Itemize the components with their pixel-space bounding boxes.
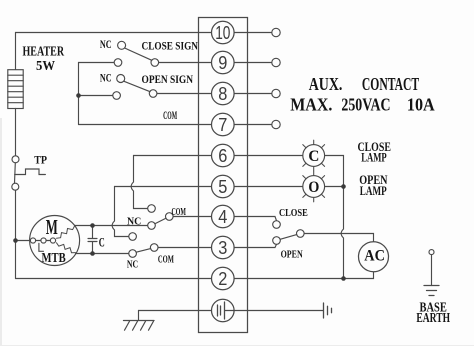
svg-text:O: O	[308, 179, 319, 196]
wire earth terminal row	[139, 310, 324, 312]
terminal block	[199, 18, 248, 333]
label AUX. CONTACT	[309, 74, 419, 94]
wire bus to aux switch 1	[79, 62, 115, 64]
svg-text:5: 5	[218, 177, 227, 197]
wire terminal 9 row	[159, 62, 272, 64]
aux contact bus (terminal 7 COM riser)	[78, 63, 80, 125]
earth symbol (earth row right)	[324, 303, 332, 318]
svg-text:COM: COM	[172, 206, 187, 218]
wire motor top to upper switch pivot	[75, 225, 148, 227]
label COM LS2	[158, 255, 174, 266]
wire lamp bus (C/O lamps to terminal 2 wire, hops AC feed)	[325, 156, 344, 279]
motor M / MTB	[30, 216, 80, 266]
svg-text:9: 9	[218, 53, 227, 73]
wire left bus bottom (TP to terminal 2 wire)	[15, 190, 17, 278]
wire terminal 7 COM row	[79, 124, 272, 126]
heater 5W	[8, 70, 23, 109]
svg-text:HEATER: HEATER	[23, 45, 65, 60]
label OPEN LAMP	[359, 172, 388, 198]
scan artifact left edge	[0, 118, 2, 346]
svg-text:CLOSE SIGN: CLOSE SIGN	[142, 39, 199, 53]
svg-text:LAMP: LAMP	[360, 183, 387, 198]
scan artifact bottom edge	[0, 345, 474, 346]
aux switch S2 OPEN SIGN	[113, 75, 157, 100]
wire terminal 8 row	[157, 93, 272, 95]
junction lamp bus to terminal 2 wire	[341, 276, 346, 281]
wire terminal 10 row	[16, 32, 272, 34]
svg-text:C: C	[308, 148, 319, 165]
junction capacitor top	[90, 223, 95, 228]
svg-text:2: 2	[218, 269, 227, 289]
label O lamp letter	[308, 179, 319, 196]
terminal earth	[212, 299, 235, 322]
aux contact stub terminal 10	[272, 28, 280, 36]
svg-text:COM: COM	[158, 255, 174, 266]
label HEATER	[23, 45, 65, 60]
svg-text:6: 6	[218, 146, 227, 166]
AC source	[359, 242, 389, 272]
close lamp C	[303, 140, 325, 171]
wire terminal 5 drop to lower limit switch NC (hops motor-top wire)	[112, 187, 129, 237]
label C capacitor	[99, 234, 105, 249]
label COM aux	[163, 108, 177, 122]
terminal 5	[212, 175, 235, 198]
wire terminal 2 row	[16, 272, 374, 279]
terminal 6	[212, 144, 235, 167]
svg-text:OPEN SIGN: OPEN SIGN	[142, 72, 194, 86]
label OPEN selector	[281, 249, 303, 261]
label CLOSE selector	[279, 207, 308, 219]
svg-text:10: 10	[215, 23, 230, 43]
svg-text:NC: NC	[100, 70, 112, 84]
svg-text:250VAC: 250VAC	[341, 95, 390, 115]
svg-text:AC: AC	[364, 248, 385, 265]
svg-text:4: 4	[218, 207, 227, 227]
label CLOSE SIGN	[142, 39, 199, 53]
wire bus to aux switch 2	[79, 95, 113, 97]
svg-text:MTB: MTB	[42, 251, 66, 266]
terminal 4	[212, 205, 235, 228]
label M motor	[46, 215, 58, 239]
wire terminal 6 drop to upper limit switch NC (hops t5 wire)	[131, 156, 148, 209]
svg-text:LAMP: LAMP	[361, 150, 387, 165]
wire left bus top (terminal 10 to heater)	[15, 33, 17, 70]
label MAX. 250VAC 10A	[290, 95, 434, 115]
svg-text:NC: NC	[100, 37, 112, 51]
chassis ground (earth row left)	[124, 311, 155, 331]
terminal 9	[212, 51, 235, 74]
wire terminal 5 row	[115, 186, 303, 188]
capacitor C	[88, 226, 97, 254]
label C lamp letter	[308, 148, 319, 165]
junction capacitor bottom	[90, 251, 95, 256]
svg-text:5W: 5W	[36, 59, 55, 74]
svg-text:TP: TP	[34, 152, 47, 166]
aux switch S1 CLOSE SIGN	[114, 41, 158, 66]
label OPEN SIGN	[142, 72, 194, 86]
label MTB	[42, 251, 66, 266]
label 5W	[36, 59, 55, 74]
wire selector to AC source	[304, 234, 373, 242]
svg-text:MAX.: MAX.	[290, 95, 332, 115]
label NC aux1	[100, 37, 112, 51]
label BASE EARTH	[416, 301, 450, 326]
terminal numbers	[215, 23, 230, 289]
svg-text:C: C	[99, 234, 105, 249]
svg-text:8: 8	[218, 84, 227, 104]
svg-text:M: M	[46, 215, 58, 239]
wire left bus to motor	[16, 240, 31, 242]
label TP	[34, 152, 47, 166]
limit switch LS2 (lower, to terminal 3)	[129, 233, 158, 258]
base earth electrode	[424, 250, 439, 296]
wire motor bottom to lower switch pivot	[76, 253, 129, 255]
svg-text:EARTH: EARTH	[416, 311, 450, 326]
svg-text:7: 7	[218, 115, 227, 135]
junction motor-bus	[13, 238, 18, 243]
label NC aux2	[100, 70, 112, 84]
label CLOSE LAMP	[358, 139, 391, 165]
wire terminal 4 row	[173, 217, 276, 221]
wire terminal 6 row	[134, 155, 303, 157]
terminal 2	[212, 267, 235, 290]
aux contact stub terminal 8	[272, 89, 280, 97]
selector switch CLOSE/OPEN	[273, 221, 304, 245]
label COM LS1	[172, 206, 187, 218]
thermal protector TP	[12, 156, 46, 190]
terminal 8	[212, 82, 235, 105]
aux contact stub terminal 9	[272, 58, 280, 66]
svg-text:OPEN: OPEN	[281, 249, 303, 261]
wire heater to TP	[15, 109, 17, 156]
label NC LS2	[127, 259, 138, 270]
label NC LS1	[127, 215, 141, 227]
terminal 10	[212, 21, 235, 44]
svg-text:COM: COM	[163, 108, 177, 122]
limit switch LS1 (upper, to terminal 4)	[148, 205, 173, 230]
open lamp O	[303, 171, 325, 202]
label AC	[364, 248, 385, 265]
svg-text:CLOSE: CLOSE	[279, 207, 308, 219]
junction O lamp bus	[341, 184, 346, 189]
terminal 3	[212, 236, 235, 259]
svg-text:NC: NC	[127, 215, 141, 227]
svg-text:3: 3	[218, 238, 227, 258]
svg-text:10A: 10A	[407, 95, 435, 115]
terminal 7	[212, 113, 235, 136]
svg-text:CONTACT: CONTACT	[362, 74, 419, 94]
aux contact stub terminal 7	[272, 120, 280, 128]
svg-text:NC: NC	[127, 259, 138, 270]
svg-text:AUX.: AUX.	[309, 74, 343, 94]
wire terminal 3 row	[158, 244, 277, 247]
junction aux bus	[76, 93, 81, 98]
